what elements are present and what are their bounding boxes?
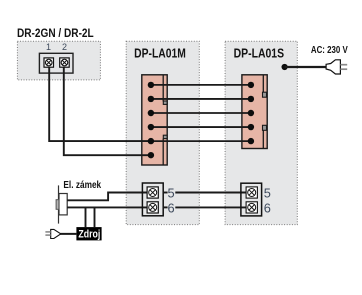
svg-text:DR-2GN / DR-2L: DR-2GN / DR-2L: [17, 27, 94, 40]
node dot S3: [248, 110, 254, 116]
latch line top of DP-LA01M strip: [162, 75, 164, 102]
power supply Zdroj (black box): [76, 227, 101, 240]
node dot S4: [248, 124, 254, 130]
node dot S1: [248, 82, 254, 88]
svg-text:DP-LA01M: DP-LA01M: [134, 48, 186, 61]
terminal block 5/6 of DP-LA01S (outer): [241, 183, 262, 216]
latch notch bottom of DP-LA01S strip: [263, 125, 267, 130]
latch notch top of DP-LA01S strip: [263, 92, 267, 97]
latch notch top of DP-LA01M strip: [163, 101, 167, 104]
svg-text:5: 5: [167, 186, 174, 201]
wire M dot3 to S dot3: [151, 112, 251, 114]
screw terminal 6 of DP-LA01S: [246, 202, 257, 213]
wire M dot1 to S dot1: [151, 84, 251, 86]
wire M dot5 to S dot5: [151, 140, 251, 142]
svg-text:2: 2: [62, 42, 67, 52]
wire M terminal 6 to S terminal 6: [175, 206, 246, 208]
node dot AC supply in DP-LA01S: [282, 64, 288, 70]
wire plug to Zdroj: [60, 233, 76, 235]
node dot S2: [248, 96, 254, 102]
module box DP-LA01S (dashed panel): [225, 41, 297, 224]
node dot S5: [248, 138, 254, 144]
svg-text:Zdroj: Zdroj: [78, 228, 100, 240]
wire M block right stub 5: [163, 192, 167, 194]
wire M dot4 to S dot4: [151, 126, 251, 128]
wire M block right stub 6: [163, 206, 167, 208]
terminal block of DR-2GN (outer): [39, 53, 73, 73]
wire M terminal 5 to S terminal 5: [175, 192, 246, 194]
svg-text:AC: 230 V: AC: 230 V: [311, 44, 349, 55]
terminal block 5/6 of DP-LA01M (outer): [142, 183, 163, 216]
svg-text:El. zámek: El. zámek: [63, 179, 101, 191]
wire M dot2 to S dot2: [151, 98, 251, 100]
latch notch bottom of DP-LA01M strip: [163, 135, 167, 138]
svg-text:6: 6: [264, 200, 271, 215]
mains plug (top right): [326, 60, 347, 74]
node dot M4: [148, 124, 154, 130]
wire lock to M terminal 6 via Zdroj: [67, 206, 147, 208]
wire DR terminal 1 to DP-LA01M dot 5: [49, 67, 151, 141]
node dot M6: [148, 152, 154, 158]
screw terminal 5 of DP-LA01M: [147, 187, 158, 198]
latch line top of DP-LA01S strip: [262, 75, 264, 93]
mains plug (bottom left): [45, 229, 60, 238]
screw terminal 5 of DP-LA01S: [246, 187, 257, 198]
node dot M2: [148, 96, 154, 102]
wire lock to M terminal 5 (with jog): [67, 193, 147, 201]
wire Zdroj tap 2: [94, 208, 96, 228]
wire DR terminal 2 to DP-LA01M dot 6: [64, 67, 151, 155]
module box DP-LA01M (dashed panel): [126, 41, 199, 224]
screw terminal 2 of DR-2GN: [60, 58, 69, 67]
wire AC dot to mains plug: [285, 66, 327, 68]
terminal strip of DP-LA01S (body): [242, 75, 267, 149]
svg-text:DP-LA01S: DP-LA01S: [234, 48, 285, 61]
svg-text:5: 5: [264, 186, 271, 201]
node dot M1: [148, 82, 154, 88]
screw terminal 6 of DP-LA01M: [147, 202, 158, 213]
node dot M5: [148, 138, 154, 144]
screw terminal 1 of DR-2GN: [44, 58, 54, 67]
svg-text:1: 1: [46, 42, 51, 52]
node dot M3: [148, 110, 154, 116]
terminal strip of DP-LA01M (body): [142, 75, 167, 165]
svg-text:6: 6: [167, 200, 174, 215]
electric lock symbol: [56, 185, 67, 223]
wire Zdroj tap 1: [85, 208, 87, 228]
latch line bottom of DP-LA01M strip: [162, 139, 164, 165]
module box DR-2GN/DR-2L (dashed panel): [17, 41, 100, 80]
latch line bottom of DP-LA01S strip: [262, 130, 264, 149]
